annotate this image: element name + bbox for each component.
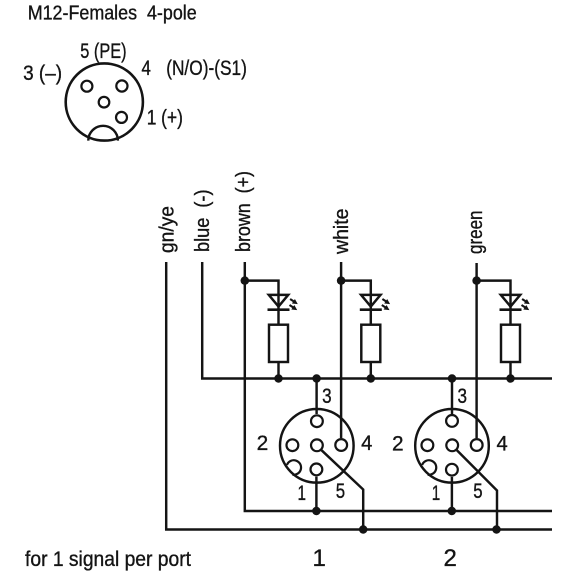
port 1 pin 3 hole xyxy=(311,415,323,427)
svg-text:5 (PE): 5 (PE) xyxy=(80,40,126,63)
junction port 2 pin 3 to minus bus xyxy=(448,374,457,383)
svg-text:3: 3 xyxy=(458,385,468,408)
junction port 2 pin 5 to PE bus xyxy=(492,525,501,534)
port 2 keying notch xyxy=(422,460,436,475)
port 1 pin 1 hole xyxy=(311,464,323,476)
svg-text:(N/O)-(S1): (N/O)-(S1) xyxy=(166,57,247,80)
port 1 connector circle xyxy=(280,409,354,483)
port 2 pin 2 hole xyxy=(422,439,434,451)
svg-text:blue (-): blue (-) xyxy=(192,190,214,253)
junction port 1 pin 3 to minus bus xyxy=(312,374,321,383)
port 1 keying notch xyxy=(287,460,301,475)
port 1 pin 4 hole xyxy=(335,439,347,451)
pin hole 3 (upper-left) xyxy=(81,81,92,92)
wire brown (+) vertical + plus bus xyxy=(245,262,552,511)
LED D2 xyxy=(360,295,390,310)
svg-text:for 1 signal per port: for 1 signal per port xyxy=(25,548,191,571)
resistor R1 xyxy=(269,325,288,362)
junction R3 to minus bus xyxy=(506,374,515,383)
port 2 pin 3 hole xyxy=(446,415,458,427)
svg-text:2: 2 xyxy=(257,432,269,455)
wire white (signal port 1) xyxy=(340,262,342,438)
resistor R2 xyxy=(361,325,380,362)
wire LED3 branch xyxy=(477,281,511,325)
wire resistor R3 to minus bus xyxy=(509,362,511,379)
junction green to LED3 xyxy=(472,276,481,285)
pin hole 4 (upper-right) xyxy=(116,80,127,91)
junction port 1 pin 1 to plus bus xyxy=(312,507,321,516)
port 1 pin 5 hole (center) xyxy=(311,439,323,451)
wire resistor R1 to minus bus xyxy=(277,362,279,379)
svg-text:2: 2 xyxy=(392,433,404,456)
keying notch (top symbol) xyxy=(88,126,118,141)
wire resistor R2 to minus bus xyxy=(370,362,372,379)
wire port 2 pin 1 lead xyxy=(451,477,453,511)
svg-text:5: 5 xyxy=(473,480,482,503)
wire port 2 pin 3 lead xyxy=(451,379,453,415)
pin hole 5 (center) xyxy=(99,97,110,108)
junction port 2 pin 1 to plus bus xyxy=(448,507,457,516)
port 2 pin 1 hole xyxy=(446,464,458,476)
LED D3 xyxy=(500,295,530,310)
svg-text:1: 1 xyxy=(313,545,326,572)
port 2 pin 5 hole (center) xyxy=(446,439,458,451)
junction port 1 pin 5 to PE bus xyxy=(359,525,368,534)
wire port 1 pin 1 lead xyxy=(315,477,317,511)
M12 female connector face (top symbol) xyxy=(66,63,143,140)
port 2 connector circle xyxy=(415,409,489,483)
junction R2 to minus bus xyxy=(367,374,376,383)
wire LED2 branch xyxy=(341,281,371,325)
svg-text:5: 5 xyxy=(336,480,345,503)
svg-text:green: green xyxy=(465,211,487,255)
svg-text:4: 4 xyxy=(497,433,508,456)
svg-text:2: 2 xyxy=(444,545,457,572)
wire port 2 pin 5 diagonal lead xyxy=(457,450,497,529)
wire port 1 pin 5 diagonal lead xyxy=(322,450,364,529)
LED D1 xyxy=(268,295,298,310)
junction brown to LED1 xyxy=(241,276,250,285)
svg-text:M12-Females 4-pole: M12-Females 4-pole xyxy=(28,3,197,25)
svg-text:3: 3 xyxy=(322,385,332,408)
junction R1 to minus bus xyxy=(274,374,283,383)
wire LED1 branch xyxy=(245,281,279,325)
svg-text:white: white xyxy=(331,209,353,255)
svg-text:4: 4 xyxy=(361,432,372,455)
junction white to LED2 xyxy=(337,276,346,285)
port 1 pin 2 hole xyxy=(287,439,299,451)
wire gn/ye (PE) vertical + bottom PE bus xyxy=(166,262,552,530)
svg-text:1 (+): 1 (+) xyxy=(147,107,183,130)
wire blue (-) vertical + minus bus xyxy=(202,262,552,379)
resistor R3 xyxy=(501,325,520,362)
wire green (signal port 2) xyxy=(475,263,477,438)
svg-text:1: 1 xyxy=(298,482,307,505)
svg-text:gn/ye: gn/ye xyxy=(157,206,179,253)
svg-text:brown (+): brown (+) xyxy=(233,171,255,252)
port 2 pin 4 hole xyxy=(471,439,483,451)
pin hole 1 (lower-right) xyxy=(116,112,127,123)
svg-text:3 (–): 3 (–) xyxy=(23,62,62,85)
svg-text:4: 4 xyxy=(142,57,152,80)
svg-text:1: 1 xyxy=(432,482,441,505)
wire port 1 pin 3 lead xyxy=(315,379,317,415)
